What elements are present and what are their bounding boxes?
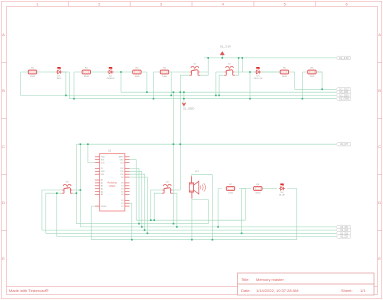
wire speaker top loop	[192, 175, 213, 240]
svg-text:E: E	[2, 256, 5, 261]
junction dot (180.3,144.2)	[180, 143, 182, 145]
junction dot (154.2,220.2)	[153, 219, 155, 221]
junction dot (218.1,226.9)	[217, 226, 219, 228]
wire mid net	[76, 143, 336, 145]
svg-text:D1: D1	[121, 206, 123, 208]
wire S2 to D3 segment	[242, 71, 250, 73]
wire loop1 row to 69.3	[62, 71, 69, 73]
wire vertical left pair 2	[79, 144, 81, 227]
junction dot (173.4,144.2)	[173, 143, 175, 145]
svg-text:1/14/2022, 10:37:28 AM: 1/14/2022, 10:37:28 AM	[256, 288, 298, 293]
wire S1 lower-right	[200, 72, 208, 75]
junction dot (222.3,57.9)	[222, 57, 224, 59]
junction dot (131.8,239.7)	[131, 239, 133, 241]
junction dot (183.9,92.2)	[183, 91, 185, 93]
svg-text:C: C	[2, 144, 5, 149]
wire bus3	[21, 94, 337, 96]
svg-text:GND: GND	[120, 159, 125, 161]
wire loop1 right drop	[68, 72, 70, 99]
LED D2 GREEN	[107, 67, 115, 80]
junction dot (250,72.0)	[249, 71, 251, 73]
junction dot (87.9,144.2)	[87, 143, 89, 145]
wire S1 right to rail	[200, 58, 209, 72]
wire bus4	[69, 98, 336, 100]
wire S3 bottom drop	[56, 193, 58, 236]
net flag U1_D10	[336, 94, 350, 98]
junction dot (302.4,98.7)	[302, 98, 304, 100]
svg-text:U1_D2: U1_D2	[340, 235, 348, 238]
junction dot (76.4,193.2)	[76, 192, 78, 194]
junction dot (183.9,98.7)	[183, 98, 185, 100]
junction dot (153.5,98.7)	[153, 98, 155, 100]
wire S3 lower right join	[73, 192, 77, 194]
wire speaker bottom route	[192, 198, 209, 224]
resistor R4	[160, 68, 168, 78]
resistor R1	[28, 68, 36, 78]
svg-text:100Ω: 100Ω	[228, 192, 233, 194]
wire RB1 left riser	[218, 189, 222, 227]
wire RB2 to LED blue	[262, 188, 277, 190]
wire loop2 left drop	[73, 72, 75, 99]
junction dot (121,72.0)	[120, 71, 122, 73]
svg-text:A: A	[378, 32, 381, 37]
svg-text:D4: D4	[121, 194, 123, 196]
junction dot (238.7,57.9)	[238, 57, 240, 59]
wire R4 left drop	[153, 72, 155, 99]
wire S2 lower-right to rail	[235, 58, 239, 75]
junction dot (141.8,226.9)	[141, 226, 143, 228]
svg-text:YELLOW: YELLOW	[253, 78, 263, 80]
junction dot (65.9,95.4)	[65, 95, 67, 97]
LED D4 BLUE	[279, 184, 286, 197]
svg-text:U1_D7: U1_D7	[340, 143, 348, 146]
svg-text:D12: D12	[120, 168, 123, 170]
pushbutton S2	[224, 63, 235, 75]
wire bottom bus M1	[136, 219, 245, 221]
wire S2 lower-left drop	[219, 75, 224, 95]
wire D3 to R5	[261, 71, 280, 73]
wire bus1	[295, 88, 336, 90]
wire S2 left drop	[216, 72, 224, 95]
wire bottom bus M5	[46, 232, 336, 234]
junction dot (56.8,193.2)	[56, 192, 58, 194]
svg-text:BLUE: BLUE	[279, 195, 285, 197]
wire D3 row segment	[250, 71, 280, 73]
LED D3 YELLOW	[253, 67, 263, 80]
svg-text:330Ω: 330Ω	[30, 76, 35, 78]
wire S4 lower-left drop	[154, 193, 162, 220]
junction dot (80.4,144.2)	[80, 143, 82, 145]
ground symbol U1_GND	[182, 92, 194, 110]
svg-text:Sheet:: Sheet:	[341, 288, 353, 293]
junction dot (147.4,233.3)	[147, 233, 149, 235]
junction dot (173.4,92.2)	[173, 91, 175, 93]
wire row segment R2 D2 R3	[74, 71, 147, 73]
svg-text:Memory master: Memory master	[256, 277, 284, 282]
resistor R3	[133, 68, 141, 78]
junction dot (250,98.7)	[249, 98, 251, 100]
wire mid to arduino pin	[88, 144, 95, 162]
net flag U1_D7	[336, 143, 350, 147]
LED D1 RED	[56, 67, 62, 80]
wire arduino right pin slot4 to M2	[130, 168, 140, 223]
junction dot (212.4,239.7)	[212, 239, 214, 241]
wire row segment R4 S1	[154, 71, 190, 73]
net flag U1_3.3V	[336, 56, 350, 60]
svg-text:RED: RED	[57, 78, 62, 80]
junction dot (215.9,95.4)	[215, 95, 217, 97]
wire bottom bus M2	[76, 223, 208, 225]
wire bottom bus M3	[80, 226, 336, 228]
wire arduino right pin slot7 to M5	[130, 177, 148, 233]
wire LED blue right drop	[287, 189, 297, 240]
net flag U1_D5	[336, 225, 350, 229]
svg-text:A3: A3	[101, 187, 103, 190]
svg-text:1/1: 1/1	[360, 288, 366, 293]
net flag U1_D12	[336, 88, 350, 92]
junction dot (74,98.7)	[73, 98, 75, 100]
wire RB1 right drop	[239, 189, 246, 221]
junction dot (176.9,226.9)	[176, 226, 178, 228]
wire R6 left drop	[301, 72, 303, 99]
net flag U1_D3	[336, 232, 350, 236]
wire R6 row segment	[302, 71, 322, 73]
net flag U1_D11	[336, 91, 350, 95]
junction dot (180.3,92.2)	[180, 91, 182, 93]
junction dot (208.2,57.9)	[207, 57, 209, 59]
svg-text:D: D	[2, 200, 5, 205]
wire arduino left bottom pin to M7	[91, 206, 95, 240]
wire S1 lower-left to vertical	[180, 75, 189, 190]
wire loop1 left	[20, 72, 22, 95]
svg-text:D13: D13	[120, 162, 123, 164]
wire bottom bus M4	[42, 229, 336, 231]
svg-text:D9: D9	[121, 177, 123, 179]
svg-text:A5: A5	[101, 193, 103, 196]
resistor R6	[308, 68, 316, 78]
svg-text:10kΩ: 10kΩ	[134, 76, 139, 78]
wire arduino right pin slot5 to M3	[130, 171, 142, 227]
wire arduino right pin slot6 to M4	[130, 174, 145, 230]
title block	[238, 273, 375, 295]
junction dot (146.9,92.2)	[146, 91, 148, 93]
svg-text:A: A	[2, 32, 5, 37]
junction dot (191.9,239.7)	[191, 239, 193, 241]
svg-text:330Ω: 330Ω	[255, 192, 260, 194]
wire S3 left upper	[42, 190, 62, 230]
svg-text:A0: A0	[101, 179, 103, 182]
resistor R5	[280, 68, 288, 78]
resistor R2	[82, 68, 90, 78]
junction dot (242.3,57.9)	[242, 57, 244, 59]
svg-text:D8: D8	[121, 183, 123, 185]
power symbol U1_3.3V	[220, 44, 231, 58]
svg-text:U1_3.3V: U1_3.3V	[339, 57, 349, 60]
svg-text:10kΩ: 10kΩ	[309, 76, 314, 78]
svg-text:GND: GND	[101, 171, 106, 173]
pushbutton S3	[62, 181, 73, 193]
svg-text:D2: D2	[121, 203, 123, 205]
resistor R8	[254, 184, 262, 194]
junction dot (219.1,95.4)	[218, 95, 220, 97]
svg-text:A1: A1	[101, 182, 103, 185]
svg-text:D7: D7	[121, 186, 123, 188]
wire speaker bottom straight drop	[191, 200, 193, 240]
junction dot (171.2,95.4)	[170, 95, 172, 97]
svg-text:D6: D6	[121, 188, 123, 190]
wire R3 right drop	[146, 72, 148, 92]
wire S2 right to rail	[235, 58, 243, 72]
junction dot (150.8,220.2)	[150, 219, 152, 221]
wire vertical mid pair 1	[172, 92, 174, 224]
svg-text:E: E	[378, 256, 381, 261]
wire arduino right pin slot16 to M7	[130, 203, 132, 240]
wire D2 T-drop	[120, 72, 122, 92]
junction dot (139.0,223.7)	[138, 223, 140, 225]
pushbutton S1	[189, 63, 200, 75]
wire S4 right to vertical	[172, 189, 180, 191]
svg-text:U1_GND: U1_GND	[339, 98, 349, 101]
wire S4 lower-right drop	[173, 193, 177, 227]
wire bus2	[121, 91, 336, 93]
svg-text:D3: D3	[121, 200, 123, 202]
svg-text:U1_3.3V: U1_3.3V	[220, 44, 231, 48]
svg-text:GREEN: GREEN	[107, 78, 115, 80]
svg-text:Date:: Date:	[241, 288, 251, 293]
svg-text:D10: D10	[120, 174, 123, 176]
wire bottom bus M6	[57, 236, 336, 238]
svg-text:330Ω: 330Ω	[84, 76, 89, 78]
svg-text:Made with Tinkercad®: Made with Tinkercad®	[9, 288, 49, 293]
svg-text:10kΩ: 10kΩ	[162, 76, 167, 78]
svg-text:UNO: UNO	[109, 184, 116, 188]
wire R4 right T-drop	[170, 72, 172, 95]
svg-text:GND: GND	[101, 157, 106, 159]
wire 3.3V rail	[204, 57, 336, 59]
wire loop1 top	[21, 71, 67, 73]
svg-text:B: B	[2, 88, 5, 93]
svg-text:A2: A2	[101, 185, 103, 188]
wire arduino right pin slot1 to M1	[130, 160, 137, 221]
wire S4 left drop	[151, 190, 163, 220]
wire vertical left pair 1	[75, 144, 77, 224]
wire S3 left lower	[46, 193, 62, 233]
svg-text:A4: A4	[101, 190, 103, 193]
svg-text:D11: D11	[120, 171, 123, 173]
resistor R7	[226, 184, 234, 194]
wire bottom bus M7	[91, 239, 297, 241]
junction dot (144.6,230.1)	[144, 229, 146, 231]
junction dot (80.4,190)	[80, 189, 82, 191]
svg-text:B: B	[378, 88, 381, 93]
wire D1 cathode drop	[65, 72, 67, 95]
svg-text:D5: D5	[121, 191, 123, 193]
wire R6 right to bus1	[316, 72, 322, 89]
svg-text:IOREF: IOREF	[101, 206, 107, 208]
wire R5 right to bus1	[289, 72, 295, 89]
net flag U1_GND	[336, 97, 350, 101]
svg-text:330Ω: 330Ω	[282, 76, 287, 78]
net flag U1_D4	[336, 228, 350, 232]
junction dot (173.4,223.7)	[173, 223, 175, 225]
junction dot (241.6,233.3)	[241, 233, 243, 235]
svg-text:D: D	[378, 200, 381, 205]
pushbutton S4	[162, 181, 173, 193]
speaker SP1	[189, 171, 205, 198]
svg-text:C: C	[378, 144, 381, 149]
net flag U1_D2	[336, 235, 350, 239]
wire D3 left drop	[249, 72, 251, 99]
IC U1 Arduino UNO	[95, 149, 130, 211]
svg-text:Title:: Title:	[241, 277, 250, 282]
wire S3 right join	[72, 189, 80, 191]
junction dot (322.1,89.3)	[321, 89, 323, 91]
wire RB2 left riser	[242, 189, 252, 234]
svg-text:U1_GND: U1_GND	[183, 107, 194, 111]
